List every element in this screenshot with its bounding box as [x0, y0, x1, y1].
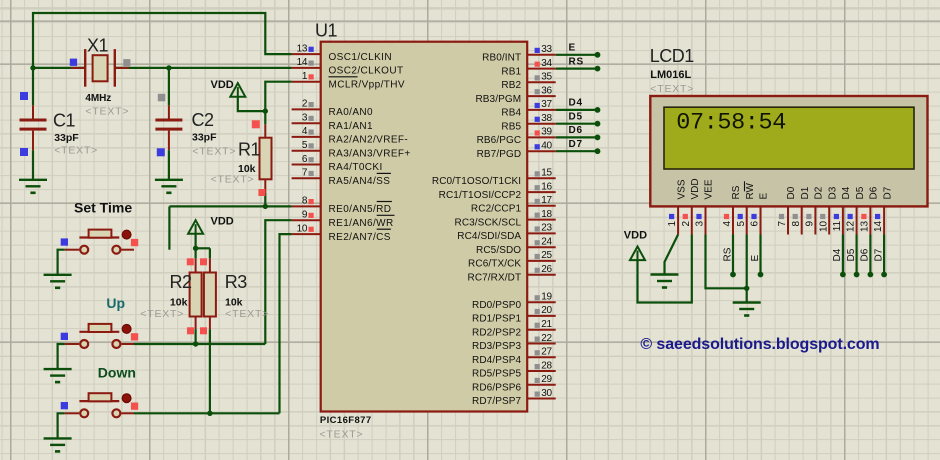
svg-text:RD2/PSP2: RD2/PSP2 — [472, 327, 521, 338]
U1 pin 4 (RA2/AN2/VREF-) stub, number and label — [292, 126, 409, 145]
R2 top pin state square — [187, 258, 194, 265]
ground below LCD VSS — [651, 275, 679, 288]
power symbol VDD (near R2) — [188, 220, 203, 234]
svg-text:<TEXT>: <TEXT> — [54, 145, 98, 157]
U1 pin 6 (RA4/T0CKI) stub, number and label — [292, 154, 383, 173]
svg-text:VDD: VDD — [211, 79, 234, 91]
svg-text:RC7/RX/DT: RC7/RX/DT — [468, 272, 522, 283]
push button Down button symbol — [65, 393, 134, 417]
U1 pin 15 (RC0/T1OSO/T1CKI) stub, number and label — [432, 168, 556, 187]
svg-text:D1: D1 — [800, 186, 811, 199]
U1 pin 23 (RC4/SDI/SDA) stub, number and label — [457, 223, 555, 242]
R2 bottom pin state square — [187, 327, 194, 334]
svg-text:10: 10 — [818, 220, 829, 232]
svg-text:14: 14 — [873, 220, 884, 232]
U1 pin 1 (MCLR/Vpp/THV) stub, number and label — [292, 71, 405, 90]
power symbol VDD (near R1) — [230, 83, 245, 97]
U1 pin 25 (RC6/TX/CK) stub, number and label — [468, 250, 556, 269]
svg-text:15: 15 — [541, 168, 552, 179]
LCD1 green display screen — [664, 107, 914, 169]
LCD1 pin 4 (RS) stub, number and label — [722, 185, 742, 234]
svg-text:D4: D4 — [841, 186, 852, 199]
svg-text:33pF: 33pF — [192, 132, 217, 144]
svg-text:X1: X1 — [87, 36, 109, 56]
svg-text:RD6/PSP6: RD6/PSP6 — [472, 383, 521, 394]
svg-text:26: 26 — [541, 264, 552, 275]
svg-text:RA4/T0CKI: RA4/T0CKI — [329, 162, 383, 173]
U1 pin 38 (RB5) stub, number and label — [501, 113, 555, 132]
U1 pin 3 (RA1/AN1) stub, number and label — [292, 113, 373, 132]
U1 pin 30 (RD7/PSP7) stub, number and label — [472, 388, 556, 407]
svg-text:RE1/AN6/WR: RE1/AN6/WR — [329, 218, 394, 229]
svg-text:VSS: VSS — [676, 179, 687, 199]
R3 top pin state square — [200, 258, 207, 265]
svg-text:RD0/PSP0: RD0/PSP0 — [472, 300, 521, 311]
LCD1 pin 11 (D4) stub, number and label — [832, 186, 852, 234]
LCD1 pin 10 (D3) stub, number and label — [818, 186, 838, 234]
svg-text:30: 30 — [541, 388, 552, 399]
U1 pin 8 (RE0/AN5/RD) stub, number and label — [292, 196, 392, 215]
ground below C1 — [19, 180, 47, 193]
svg-text:40: 40 — [541, 141, 552, 152]
svg-text:RD3/PSP3: RD3/PSP3 — [472, 341, 521, 352]
U1 pin 2 (RA0/AN0) stub, number and label — [292, 99, 373, 118]
svg-text:RA1/AN1: RA1/AN1 — [329, 121, 374, 132]
svg-text:RB5: RB5 — [501, 121, 521, 132]
svg-text:LCD1: LCD1 — [650, 46, 695, 66]
wire RE2 net: pin10 left then down — [280, 234, 292, 413]
R3 bottom pin state square — [200, 327, 207, 334]
SetTime button left pin state square — [61, 238, 68, 245]
svg-text:7: 7 — [777, 220, 788, 226]
svg-text:RD1/PSP1: RD1/PSP1 — [472, 314, 521, 325]
svg-text:37: 37 — [541, 99, 552, 110]
SetTime button right pin state square — [131, 239, 138, 246]
svg-text:D6: D6 — [569, 125, 583, 136]
wire net D4 from U1 to terminal dot — [556, 98, 601, 113]
svg-text:RB0/INT: RB0/INT — [482, 53, 521, 64]
svg-text:<TEXT>: <TEXT> — [650, 83, 694, 95]
push button SetTime button symbol — [65, 230, 134, 254]
LCD1 pin 2 (VDD) stub, number and label — [681, 178, 701, 234]
svg-text:RC2/CCP1: RC2/CCP1 — [471, 204, 522, 215]
svg-text:RD4/PSP4: RD4/PSP4 — [472, 355, 521, 366]
svg-text:RS: RS — [722, 247, 733, 261]
svg-text:E: E — [569, 43, 576, 54]
svg-text:17: 17 — [541, 195, 552, 206]
svg-text:R3: R3 — [225, 272, 247, 292]
C2 bottom pin state square — [157, 148, 165, 156]
svg-text:28: 28 — [541, 360, 552, 371]
wire LCD VEE pin to ground rail — [706, 235, 747, 289]
wire net D7 from U1 to terminal dot — [556, 139, 601, 154]
ground below Down button — [44, 438, 72, 451]
svg-text:<TEXT>: <TEXT> — [140, 308, 184, 320]
svg-text:RD5/PSP5: RD5/PSP5 — [472, 369, 521, 380]
wire OSC2: crystal right to pin14 — [115, 67, 292, 69]
svg-text:R1: R1 — [238, 140, 260, 160]
svg-text:RB7/PGD: RB7/PGD — [477, 149, 522, 160]
svg-text:16: 16 — [541, 181, 552, 192]
ground below SetTime button — [44, 275, 72, 288]
svg-text:VDD: VDD — [690, 178, 701, 199]
svg-text:5: 5 — [736, 220, 747, 226]
LCD1 pin 3 (VEE) stub, number and label — [695, 179, 715, 234]
wire OSC1 loop: pin13 to crystal left / C1 — [33, 13, 292, 68]
wire LCD RW pin to ground — [746, 235, 748, 303]
svg-text:RS: RS — [731, 185, 742, 199]
svg-text:25: 25 — [541, 250, 552, 261]
U1 pin 40 (RB7/PGD) stub, number and label — [477, 141, 556, 160]
wire from button1 right pin up to RE0 row — [168, 206, 170, 249]
wire LCD D4 pin terminal with label — [832, 235, 846, 278]
svg-text:D7: D7 — [882, 186, 893, 199]
power symbol VDD (near LCD) — [630, 247, 645, 261]
U1 pin 5 (RA3/AN3/VREF+) stub, number and label — [292, 140, 411, 159]
svg-text:4: 4 — [302, 126, 308, 137]
LCD1 pin 8 (D1) stub, number and label — [791, 186, 811, 234]
svg-text:RW: RW — [745, 182, 756, 199]
U1 pin 14 (OSC2/CLKOUT) stub, number and label — [292, 57, 404, 76]
node junction at C2 tap — [166, 65, 171, 70]
U1 pin 29 (RD6/PSP6) stub, number and label — [472, 374, 556, 393]
svg-text:24: 24 — [541, 237, 552, 248]
svg-text:36: 36 — [541, 85, 552, 96]
svg-text:39: 39 — [541, 127, 552, 138]
X1 left pin state square — [70, 59, 77, 66]
wire net RS from U1 to terminal dot — [556, 56, 601, 71]
svg-text:RA5/AN4/SS: RA5/AN4/SS — [329, 176, 391, 187]
LCD1 pin 9 (D2) stub, number and label — [805, 186, 825, 234]
X1 right pin state square — [123, 59, 130, 66]
node junction VDD2 / R2 / R3 — [193, 246, 198, 251]
node junction VEE/RW ground rail — [744, 286, 749, 291]
svg-text:14: 14 — [297, 57, 308, 68]
R1 bottom pin state square — [258, 189, 265, 196]
svg-text:RD7/PSP7: RD7/PSP7 — [472, 396, 521, 407]
wire LCD D6 pin terminal with label — [860, 235, 874, 278]
wire OSC1 node down to C1 and right to crystal — [33, 67, 85, 69]
svg-text:U1: U1 — [315, 20, 337, 40]
svg-text:D7: D7 — [569, 139, 583, 150]
U1 pin 20 (RD1/PSP1) stub, number and label — [472, 305, 556, 324]
svg-text:VEE: VEE — [704, 179, 715, 199]
U1 pin 36 (RB3/PGM) stub, number and label — [475, 85, 555, 104]
svg-text:VDD: VDD — [624, 230, 647, 242]
svg-text:RC3/SCK/SCL: RC3/SCK/SCL — [455, 217, 522, 228]
svg-text:RC4/SDI/SDA: RC4/SDI/SDA — [457, 231, 521, 242]
svg-text:RE0/AN5/RD: RE0/AN5/RD — [329, 204, 392, 215]
wire RE0 net: button SetTime to pin8 — [169, 205, 291, 207]
LCD1 pin 12 (D5) stub, number and label — [846, 186, 866, 234]
svg-text:13: 13 — [860, 220, 871, 232]
microcontroller U1 PIC16F877 chip body — [321, 42, 528, 412]
U1 pin 22 (RD3/PSP3) stub, number and label — [472, 333, 556, 352]
U1 pin 37 (RB4) stub, number and label — [501, 99, 555, 118]
LCD1 pin 1 (VSS) stub, number and label — [667, 179, 687, 234]
svg-text:22: 22 — [541, 333, 552, 344]
LCD1 pin 6 (E) stub, number and label — [750, 193, 770, 235]
svg-text:23: 23 — [541, 223, 552, 234]
svg-text:11: 11 — [832, 220, 843, 231]
svg-text:34: 34 — [541, 58, 552, 69]
svg-text:33: 33 — [541, 44, 552, 55]
capacitor C2 symbol — [155, 68, 182, 180]
svg-text:6: 6 — [750, 220, 761, 226]
svg-text:E: E — [750, 255, 761, 262]
svg-text:D4: D4 — [832, 248, 843, 261]
svg-text:9: 9 — [805, 220, 816, 226]
wire button2 row to corner — [134, 343, 265, 345]
svg-text:RC6/TX/CK: RC6/TX/CK — [468, 259, 521, 270]
svg-text:13: 13 — [297, 43, 308, 54]
svg-text:OSC2/CLKOUT: OSC2/CLKOUT — [329, 66, 404, 77]
svg-text:LM016L: LM016L — [650, 69, 691, 81]
svg-text:OSC1/CLKIN: OSC1/CLKIN — [329, 52, 392, 63]
U1 pin 16 (RC1/T1OSI/CCP2) stub, number and label — [439, 181, 556, 200]
svg-text:RB3/PGM: RB3/PGM — [475, 94, 521, 105]
wire net D5 from U1 to terminal dot — [556, 111, 601, 126]
svg-text:<TEXT>: <TEXT> — [211, 174, 255, 186]
svg-text:6: 6 — [302, 154, 308, 165]
U1 pin 26 (RC7/RX/DT) stub, number and label — [468, 264, 556, 283]
C1 bottom pin state square — [20, 148, 28, 156]
ground below Up button — [44, 369, 72, 382]
svg-text:5: 5 — [302, 140, 308, 151]
svg-text:3: 3 — [695, 220, 706, 226]
svg-text:<TEXT>: <TEXT> — [225, 308, 269, 320]
wire VDD stem to R1 top junction — [238, 97, 265, 111]
svg-text:8: 8 — [302, 196, 308, 207]
svg-text:19: 19 — [541, 292, 552, 303]
svg-text:<TEXT>: <TEXT> — [320, 429, 364, 441]
U1 pin 27 (RD4/PSP4) stub, number and label — [472, 347, 556, 366]
U1 pin 34 (RB1) stub, number and label — [501, 58, 555, 77]
node junction R1 bottom on RE0 net — [263, 204, 268, 209]
svg-text:C2: C2 — [192, 110, 214, 130]
svg-text:RA2/AN2/VREF-: RA2/AN2/VREF- — [329, 135, 409, 146]
wire pin1 MCLR to VDD/R1 junction — [265, 82, 291, 111]
C2 top pin state square — [158, 94, 166, 102]
svg-text:MCLR/Vpp/THV: MCLR/Vpp/THV — [329, 79, 406, 90]
U1 pin 35 (RB2) stub, number and label — [501, 72, 555, 91]
svg-text:9: 9 — [302, 210, 308, 221]
svg-text:C1: C1 — [53, 111, 75, 131]
svg-text:RS: RS — [569, 56, 585, 67]
U1 pin 7 (RA5/AN4/SS) stub, number and label — [292, 168, 391, 187]
svg-text:D3: D3 — [827, 186, 838, 199]
U1 pin 9 (RE1/AN6/WR) stub, number and label — [292, 210, 395, 229]
svg-text:D7: D7 — [873, 248, 884, 261]
wire Up button left pin to ground — [58, 344, 65, 369]
Up button right pin state square — [131, 333, 138, 340]
svg-text:1: 1 — [667, 220, 678, 226]
LCD LCD1 body — [650, 96, 927, 206]
svg-text:RB6/PGC: RB6/PGC — [477, 135, 522, 146]
resistor R1 body and pins — [260, 111, 272, 206]
ground below C2 — [155, 180, 183, 193]
resistor R3 body and pins — [204, 248, 216, 413]
wire Down button left pin to ground — [58, 413, 65, 438]
push button Up button symbol — [65, 324, 134, 348]
svg-text:R2: R2 — [170, 272, 192, 292]
node junction R3 bottom on RE2 net — [207, 411, 212, 416]
LCD1 pin 7 (D0) stub, number and label — [777, 186, 797, 234]
svg-text:2: 2 — [302, 99, 308, 110]
Down button right pin state square — [131, 403, 138, 410]
node junction at C1 / crystal left — [30, 65, 35, 70]
svg-text:21: 21 — [541, 319, 552, 330]
wire LCD D7 pin terminal with label — [873, 235, 887, 278]
U1 pin 21 (RD2/PSP2) stub, number and label — [472, 319, 556, 338]
svg-text:RB2: RB2 — [501, 80, 521, 91]
U1 pin 24 (RC5/SDO) stub, number and label — [476, 237, 556, 256]
svg-text:10: 10 — [297, 223, 308, 234]
svg-text:1: 1 — [302, 71, 308, 82]
svg-text:Up: Up — [106, 295, 125, 311]
resistor R2 body and pins — [190, 248, 202, 344]
svg-text:10k: 10k — [225, 297, 243, 309]
svg-text:RC5/SDO: RC5/SDO — [476, 245, 521, 256]
U1 pin 19 (RD0/PSP0) stub, number and label — [472, 292, 556, 311]
svg-text:D6: D6 — [860, 248, 871, 261]
svg-text:© saeedsolutions.blogspot.com: © saeedsolutions.blogspot.com — [640, 336, 879, 353]
svg-text:4: 4 — [722, 220, 733, 226]
svg-text:D5: D5 — [855, 186, 866, 199]
crystal X1 symbol — [71, 49, 129, 87]
capacitor C1 symbol — [20, 68, 47, 180]
U1 pin 13 (OSC1/CLKIN) stub, number and label — [292, 43, 392, 62]
svg-text:7: 7 — [302, 168, 308, 179]
wire VDD2 stem down to R2/R3 junction — [195, 234, 197, 249]
Down button left pin state square — [61, 402, 68, 409]
svg-text:10k: 10k — [170, 297, 188, 309]
wire net E from U1 to terminal dot — [556, 43, 601, 58]
U1 pin 10 (RE2/AN7/CS) stub, number and label — [292, 223, 391, 242]
svg-text:<TEXT>: <TEXT> — [85, 106, 129, 118]
wire button3 row — [134, 412, 280, 414]
wire LCD RS pin terminal with label — [722, 235, 735, 278]
LCD1 pin 5 (RW) stub, number and label — [736, 181, 756, 234]
wire VDD to LCD VDD pin — [638, 235, 692, 303]
wire LCD D5 pin terminal with label — [846, 235, 860, 278]
svg-text:RC0/T1OSO/T1CKI: RC0/T1OSO/T1CKI — [432, 176, 521, 187]
svg-text:2: 2 — [681, 220, 692, 226]
svg-text:RE2/AN7/CS: RE2/AN7/CS — [329, 232, 391, 243]
svg-text:33pF: 33pF — [54, 132, 79, 144]
svg-text:D2: D2 — [814, 186, 825, 199]
LCD1 pin 13 (D6) stub, number and label — [860, 186, 880, 234]
svg-text:PIC16F877: PIC16F877 — [320, 415, 372, 426]
svg-text:VDD: VDD — [211, 216, 234, 228]
ground below LCD RW/VEE — [733, 303, 761, 316]
svg-text:Set Time: Set Time — [74, 200, 132, 216]
svg-text:27: 27 — [541, 347, 552, 358]
svg-text:35: 35 — [541, 72, 552, 83]
wire SetTime button left pin to ground — [58, 250, 65, 275]
svg-text:18: 18 — [541, 209, 552, 220]
wire LCD E pin terminal with label — [750, 235, 763, 278]
LCD1 pin 14 (D7) stub, number and label — [873, 186, 893, 234]
svg-text:12: 12 — [846, 220, 857, 232]
svg-text:D5: D5 — [569, 111, 583, 122]
U1 pin 28 (RD5/PSP5) stub, number and label — [472, 360, 556, 379]
svg-text:20: 20 — [541, 305, 552, 316]
svg-text:3: 3 — [302, 113, 308, 124]
U1 pin 39 (RB6/PGC) stub, number and label — [477, 127, 556, 146]
svg-text:RB1: RB1 — [501, 66, 521, 77]
U1 pin 17 (RC2/CCP1) stub, number and label — [471, 195, 556, 214]
C1 top pin state square — [20, 92, 28, 100]
svg-text:<TEXT>: <TEXT> — [192, 146, 236, 158]
node junction VDD / MCLR / R1 — [263, 108, 268, 113]
wire RE1 net: pin9 left then down to button row — [265, 220, 291, 344]
node junction R2 bottom on RE1 net — [193, 341, 198, 346]
svg-text:4MHz: 4MHz — [85, 93, 111, 104]
wire junction to R3 top — [196, 247, 210, 249]
U1 pin 33 (RB0/INT) stub, number and label — [482, 44, 556, 63]
svg-text:E: E — [759, 193, 770, 200]
svg-text:38: 38 — [541, 113, 552, 124]
svg-text:29: 29 — [541, 374, 552, 385]
R1 top pin state square — [252, 120, 260, 128]
svg-text:Down: Down — [98, 364, 136, 380]
Up button left pin state square — [61, 333, 68, 340]
svg-text:D0: D0 — [786, 186, 797, 199]
svg-text:RC1/T1OSI/CCP2: RC1/T1OSI/CCP2 — [439, 190, 522, 201]
svg-text:07:58:54: 07:58:54 — [676, 110, 786, 137]
U1 pin 18 (RC3/SCK/SCL) stub, number and label — [455, 209, 556, 228]
wire net D6 from U1 to terminal dot — [556, 125, 601, 140]
svg-text:D5: D5 — [846, 248, 857, 261]
svg-text:D4: D4 — [569, 98, 583, 109]
svg-text:D6: D6 — [869, 186, 880, 199]
svg-text:8: 8 — [791, 220, 802, 226]
svg-text:RB4: RB4 — [501, 108, 521, 119]
wire LCD VSS pin to ground (diagonal) — [665, 235, 679, 275]
svg-text:RA3/AN3/VREF+: RA3/AN3/VREF+ — [329, 148, 411, 159]
svg-text:RA0/AN0: RA0/AN0 — [329, 107, 374, 118]
